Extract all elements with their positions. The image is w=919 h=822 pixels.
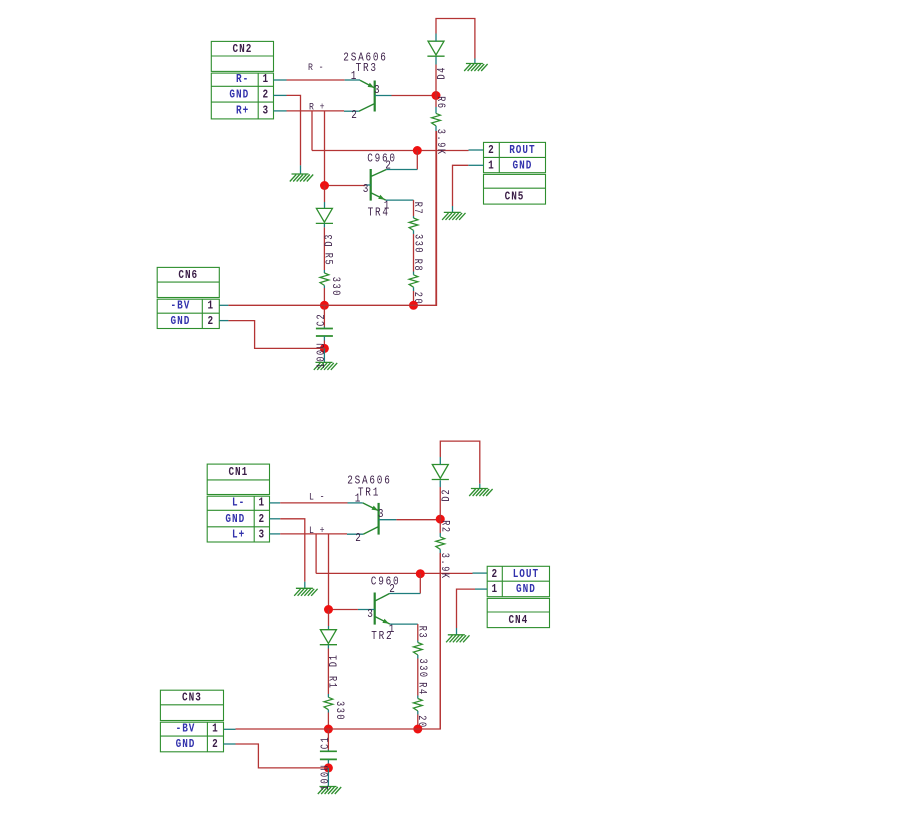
R8 stub bottom <box>413 287 415 291</box>
wire -BV rail (bottom section) <box>236 553 441 729</box>
svg-text:1: 1 <box>355 493 362 506</box>
wire TR2 base <box>329 609 358 611</box>
wire R8 to -BV rail <box>413 291 415 305</box>
svg-text:1: 1 <box>351 70 358 83</box>
C2 stub bottom <box>323 336 325 341</box>
wire node to D3 <box>324 186 326 203</box>
svg-text:2: 2 <box>207 315 214 328</box>
wire R+ drop to ROUT line <box>311 111 313 151</box>
CN6 pin 1 stub <box>219 304 228 306</box>
wire GND : CN2-2 down <box>287 95 301 165</box>
svg-text:3: 3 <box>367 608 374 621</box>
svg-text:R1: R1 <box>326 676 338 689</box>
resistor R7 <box>409 218 418 230</box>
svg-text:D3: D3 <box>323 233 335 246</box>
svg-text:CN2: CN2 <box>233 43 253 56</box>
CN4 pin 2 stub <box>473 572 488 574</box>
wire R3 to R4 <box>417 659 419 696</box>
junction node R5/C2/-BV rail <box>320 301 329 310</box>
svg-text:100U: 100U <box>315 342 327 369</box>
wire R1 to -BV rail <box>327 713 329 730</box>
TR3 collector stub <box>344 110 359 112</box>
svg-text:TR3: TR3 <box>356 62 378 75</box>
CN1 pin 1 stub <box>270 502 281 504</box>
transistor TR3 body <box>359 80 375 111</box>
svg-text:L +: L + <box>309 524 325 536</box>
connector CN4 body <box>487 566 549 627</box>
capacitor C2 <box>316 329 333 337</box>
R7 stub top <box>413 216 415 218</box>
svg-text:R+: R+ <box>236 105 249 118</box>
wire CN3 GND to C1 node <box>236 744 329 768</box>
GND stub <box>300 165 302 174</box>
svg-text:R7: R7 <box>412 202 424 215</box>
C1 stub top <box>327 750 329 752</box>
wire R4 to -BV rail <box>417 715 419 730</box>
svg-text:1: 1 <box>207 300 214 313</box>
svg-text:2: 2 <box>212 738 219 751</box>
CN2 pin 2 stub <box>274 94 287 96</box>
junction node TR3.B/D4/R6 <box>432 91 441 100</box>
junction node ROUT/TR4.C <box>413 146 422 155</box>
R4 stub top <box>417 696 419 699</box>
wire C2 to GND node <box>323 341 325 349</box>
svg-text:3: 3 <box>263 105 270 118</box>
connector CN1 body <box>207 464 269 542</box>
R1 stub bottom <box>327 710 329 713</box>
R3 stub bottom <box>417 655 419 659</box>
R6 stub top <box>435 107 437 113</box>
TR4 collector wire <box>416 151 418 170</box>
CN2 pin 3 stub <box>274 110 287 112</box>
svg-text:GND: GND <box>513 159 533 172</box>
junction node C1/GND <box>324 763 333 772</box>
R7 stub bottom <box>413 230 415 234</box>
capacitor C1 <box>320 751 337 759</box>
wire L- : CN1-1 to TR1 emitter <box>280 502 347 504</box>
resistor R3 <box>413 643 422 655</box>
wire CN4 GND down <box>457 589 476 628</box>
transistor TR1 body <box>363 503 379 535</box>
D4 anode stub <box>435 34 437 42</box>
CN5 pin 1 stub <box>468 164 483 166</box>
svg-text:L-: L- <box>232 497 245 510</box>
svg-text:1: 1 <box>488 159 495 172</box>
TR3 emitter arrow <box>368 83 375 88</box>
svg-text:GND: GND <box>176 738 196 751</box>
TR1 collector stub <box>347 533 363 535</box>
svg-text:-BV: -BV <box>171 300 191 313</box>
svg-text:3: 3 <box>374 84 381 97</box>
svg-text:CN5: CN5 <box>505 190 525 203</box>
svg-text:CN1: CN1 <box>228 466 248 479</box>
ground (C1) <box>318 787 341 795</box>
ground (CN2 GND) <box>290 174 313 182</box>
wire R5 to -BV rail <box>323 288 325 305</box>
wire TR3 base to node <box>392 95 437 97</box>
D3 cathode stub <box>323 224 325 228</box>
wire TR4 emitter down <box>413 200 415 216</box>
D4 cathode stub <box>435 57 437 65</box>
svg-text:L+: L+ <box>232 529 245 542</box>
svg-text:C2: C2 <box>315 313 327 326</box>
svg-text:GND: GND <box>171 315 191 328</box>
TR4 emitter arrow <box>378 195 385 200</box>
svg-text:R-: R- <box>236 73 249 86</box>
svg-text:330: 330 <box>417 659 429 679</box>
ground (C2) <box>314 362 337 370</box>
diode D4 <box>427 41 444 56</box>
wire LOUT line <box>316 572 472 574</box>
svg-text:2: 2 <box>491 568 498 581</box>
ground stub <box>479 484 481 489</box>
ground stub <box>327 768 329 787</box>
svg-text:-BV: -BV <box>176 723 196 736</box>
TR4 collector stub <box>386 169 417 171</box>
ground (D2) <box>469 489 492 497</box>
svg-text:330: 330 <box>334 701 346 721</box>
wire rail to C1 <box>327 729 329 750</box>
ground stub <box>452 206 454 212</box>
junction node TR2.B/D1 <box>324 605 333 614</box>
CN1 pin 2 stub <box>270 518 281 520</box>
TR3 base stub <box>375 95 392 97</box>
TR2 collector wire <box>419 574 421 594</box>
wire GND : CN1-2 down <box>280 519 305 582</box>
wire -BV rail (top section) <box>228 131 436 305</box>
svg-text:CN4: CN4 <box>508 614 528 627</box>
resistor R2 <box>436 537 445 549</box>
ground (D4) <box>464 64 487 72</box>
R2 stub bottom <box>439 549 441 553</box>
svg-text:CN6: CN6 <box>178 269 198 282</box>
junction node R1/C1/-BV rail <box>324 725 333 734</box>
wire TR4 base <box>325 185 366 187</box>
CN3 pin 2 stub <box>224 743 236 745</box>
transistor TR2 body <box>375 593 390 625</box>
TR2 base stub <box>358 609 375 611</box>
svg-text:GND: GND <box>229 88 249 101</box>
svg-text:CN3: CN3 <box>182 692 202 705</box>
svg-text:330: 330 <box>330 277 342 297</box>
C1 stub bottom <box>327 759 329 763</box>
ground (CN1 GND) <box>294 588 317 596</box>
svg-text:R6: R6 <box>434 96 446 109</box>
svg-text:2: 2 <box>389 583 396 596</box>
diode D2 <box>432 465 449 480</box>
svg-text:2: 2 <box>385 160 392 173</box>
R8 stub top <box>413 272 415 275</box>
wire R2 to -BV rail <box>439 553 441 729</box>
resistor R5 <box>320 273 329 285</box>
wire ROUT line <box>312 150 469 152</box>
diode D3 <box>316 208 333 223</box>
svg-text:R -: R - <box>308 61 324 73</box>
svg-text:1: 1 <box>259 497 266 510</box>
junction node LOUT/TR2.C <box>416 569 425 578</box>
connector CN6 body <box>157 267 219 328</box>
svg-text:R4: R4 <box>416 682 428 695</box>
wire node to R6 <box>435 96 437 108</box>
wire L+ drop to TR2 base node <box>328 534 330 610</box>
CN1 pin 3 stub <box>270 533 281 535</box>
wire CN6 GND to C2 node <box>228 321 324 349</box>
C2 stub top <box>323 327 325 329</box>
wire CN5 GND down <box>453 165 469 206</box>
TR1 emitter stub <box>348 502 363 504</box>
wire R+ : CN2-3 to TR3 collector <box>287 110 345 112</box>
svg-text:D4: D4 <box>436 66 448 79</box>
ground (CN4) <box>446 635 469 643</box>
wire R- : CN2-1 to TR3 emitter <box>287 79 345 81</box>
ground (CN5) <box>442 212 465 220</box>
svg-text:1: 1 <box>491 583 498 596</box>
resistor R6 <box>432 113 441 125</box>
svg-text:LOUT: LOUT <box>513 568 539 581</box>
svg-text:2: 2 <box>259 513 266 526</box>
svg-text:ROUT: ROUT <box>509 144 535 157</box>
wire D4 to ground <box>436 19 475 59</box>
ground stub <box>474 59 476 64</box>
wire D3 to R5 <box>323 227 325 270</box>
connector CN3 body <box>160 690 223 752</box>
R5 stub top <box>323 270 325 273</box>
svg-text:R +: R + <box>309 100 325 112</box>
svg-text:2: 2 <box>488 144 495 157</box>
R1 stub top <box>327 694 329 697</box>
resistor R4 <box>413 699 422 711</box>
wire R+ drop to TR4 base node <box>324 111 326 186</box>
junction node R4/-BV rail <box>413 725 422 734</box>
R6 stub bottom <box>435 126 437 131</box>
svg-text:2: 2 <box>355 532 362 545</box>
wire D1 to R1 <box>327 649 329 695</box>
connector CN2 body <box>211 41 273 119</box>
resistor R8 <box>409 275 418 287</box>
svg-text:L -: L - <box>309 491 325 503</box>
R3 stub top <box>417 641 419 643</box>
wire C1 to GND node <box>327 764 329 768</box>
diode D1 <box>320 630 337 645</box>
R2 stub top <box>439 533 441 537</box>
TR1 base stub <box>379 519 397 521</box>
resistor R1 <box>324 697 333 709</box>
R5 stub bottom <box>323 285 325 288</box>
R4 stub bottom <box>417 711 419 715</box>
CN5 pin 2 stub <box>469 149 484 151</box>
svg-text:GND: GND <box>516 583 536 596</box>
wire rail to C2 <box>323 305 325 326</box>
svg-text:R3: R3 <box>416 626 428 639</box>
connector CN5 body <box>484 142 546 204</box>
wire D2 to ground <box>440 441 480 484</box>
TR2 collector stub <box>390 593 421 595</box>
ground stub <box>456 628 458 635</box>
TR4 base stub <box>365 184 370 186</box>
svg-text:1: 1 <box>263 73 270 86</box>
TR2 emitter stub <box>390 623 418 625</box>
wire node up to D2 <box>439 487 441 519</box>
D1 cathode stub <box>327 645 329 649</box>
wire node up to D4 <box>435 65 437 96</box>
D2 anode stub <box>439 457 441 465</box>
svg-text:R8: R8 <box>412 259 424 272</box>
CN2 pin 1 stub <box>274 79 287 81</box>
svg-text:C1: C1 <box>319 736 331 749</box>
svg-text:2: 2 <box>263 88 270 101</box>
svg-text:2: 2 <box>351 109 358 122</box>
svg-text:3: 3 <box>378 508 385 521</box>
TR1 emitter arrow <box>372 506 379 511</box>
TR2 emitter arrow <box>382 619 389 624</box>
junction node C2/GND <box>320 344 329 353</box>
junction node TR1.B/D2/R2 <box>436 515 445 524</box>
TR4 emitter stub <box>386 199 414 201</box>
D1 anode stub <box>328 626 330 630</box>
wire R6 to -BV rail <box>435 131 437 305</box>
svg-text:R2: R2 <box>439 520 451 533</box>
CN6 pin 2 stub <box>219 320 228 322</box>
svg-text:D2: D2 <box>440 488 452 501</box>
GND stub <box>304 582 306 589</box>
TR3 emitter stub <box>345 79 360 81</box>
svg-text:D1: D1 <box>328 654 340 667</box>
D2 cathode stub <box>439 480 441 487</box>
wire TR1 base to node <box>396 519 440 521</box>
D3 anode stub <box>324 202 326 208</box>
wire TR2 emitter down <box>417 624 419 640</box>
svg-text:3: 3 <box>259 529 266 542</box>
svg-text:3: 3 <box>363 183 370 196</box>
svg-text:GND: GND <box>225 513 245 526</box>
CN4 pin 1 stub <box>475 588 487 590</box>
svg-text:R5: R5 <box>322 253 334 266</box>
transistor TR4 body <box>371 169 387 201</box>
junction node R8/-BV rail <box>409 301 418 310</box>
svg-text:330: 330 <box>412 234 424 254</box>
wire node to D1 <box>328 610 330 627</box>
wire L+ drop to LOUT line <box>315 534 317 574</box>
CN3 pin 1 stub <box>224 728 236 730</box>
wire R7 to R8 <box>413 234 415 272</box>
ground stub <box>323 348 325 362</box>
svg-text:1: 1 <box>212 723 219 736</box>
svg-text:1: 1 <box>384 200 391 213</box>
wire L+ : CN1-3 to TR1 collector <box>280 533 347 535</box>
junction node TR4.B/D3 <box>320 181 329 190</box>
wire node to R2 <box>439 519 441 533</box>
svg-text:1: 1 <box>389 623 396 636</box>
